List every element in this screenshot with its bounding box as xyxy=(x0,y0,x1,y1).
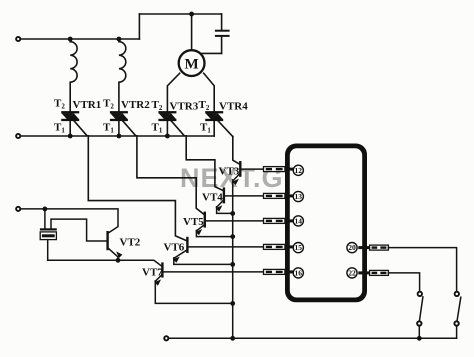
svg-text:13: 13 xyxy=(295,192,303,201)
svg-text:VT7: VT7 xyxy=(142,267,163,279)
svg-text:15: 15 xyxy=(295,243,303,252)
svg-text:16: 16 xyxy=(295,269,303,278)
svg-text:VT6: VT6 xyxy=(164,242,185,254)
svg-text:VT2: VT2 xyxy=(120,237,141,249)
svg-text:VTR3: VTR3 xyxy=(170,101,199,113)
svg-text:VT4: VT4 xyxy=(202,192,223,204)
svg-text:M: M xyxy=(185,57,199,73)
svg-text:VTR2: VTR2 xyxy=(121,99,150,111)
svg-text:VTR1: VTR1 xyxy=(73,99,102,111)
svg-text:22: 22 xyxy=(348,269,356,278)
svg-text:14: 14 xyxy=(295,217,303,226)
svg-text:12: 12 xyxy=(295,166,303,175)
svg-text:20: 20 xyxy=(348,243,356,252)
svg-text:VT3: VT3 xyxy=(219,166,240,178)
svg-text:VT5: VT5 xyxy=(183,216,204,228)
svg-text:VTR4: VTR4 xyxy=(219,101,248,113)
